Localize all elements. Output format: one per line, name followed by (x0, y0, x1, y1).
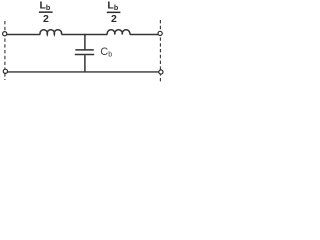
wire top-left (7, 34, 41, 36)
capacitor plate top (75, 49, 94, 51)
wire top-right (130, 34, 158, 36)
svg-text:2: 2 (43, 13, 49, 25)
port 1 dashed line (4, 21, 6, 80)
inductor L2 (Lb/2) (107, 30, 130, 35)
label Lb/2 (left) fraction bar (39, 11, 53, 13)
terminal 1 bottom (3, 69, 7, 73)
inductor L1 (Lb/2) (40, 30, 62, 35)
terminal 2 top (158, 31, 162, 35)
wire bottom (7, 71, 160, 73)
terminal 2 bottom (159, 70, 163, 74)
junction dot top (84, 34, 86, 36)
port 2 dashed line (159, 20, 161, 82)
capacitor C (Cb) stem top (84, 35, 86, 50)
svg-text:2: 2 (111, 13, 117, 25)
wire top-middle (61, 34, 107, 36)
capacitor plate bottom (75, 54, 94, 56)
capacitor stem bottom (84, 55, 86, 72)
terminal 1 top (3, 32, 7, 36)
label Lb/2 (right) fraction bar (107, 12, 121, 14)
